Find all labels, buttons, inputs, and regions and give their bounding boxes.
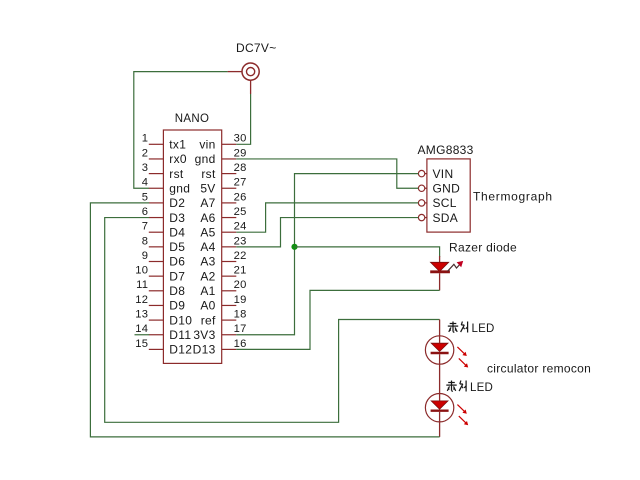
pin 29 (gnd) <box>195 147 247 166</box>
pin 3 (rst) <box>142 162 184 181</box>
svg-text:A6: A6 <box>200 211 215 225</box>
pin VIN of AMG8833 <box>418 167 453 181</box>
wire D3 pin6 to LED anodes <box>105 218 440 423</box>
LED D3 emission arrows <box>457 405 468 426</box>
svg-text:25: 25 <box>234 206 247 218</box>
svg-text:NANO: NANO <box>175 113 209 125</box>
LED D3 赤外LED <box>425 394 453 422</box>
label 赤外LED (upper) <box>448 322 495 336</box>
wire A4 pin23 to AMG8833 SDA <box>236 218 418 247</box>
pin 8 (D5) <box>142 235 185 254</box>
svg-text:gnd: gnd <box>169 181 190 195</box>
svg-text:2: 2 <box>142 147 149 159</box>
pin 14 (D11) <box>135 323 191 342</box>
pin 11 (D8) <box>136 279 185 298</box>
junction node laser anode on 3V3 wire <box>291 244 297 250</box>
svg-text:tx1: tx1 <box>169 138 186 152</box>
pin 17 (3V3) <box>193 323 246 342</box>
svg-text:ref: ref <box>201 313 216 327</box>
connector X1 DC7V~ <box>228 63 260 94</box>
wire A5 pin24 to AMG8833 SCL <box>236 203 418 232</box>
lead LED D2 cathode to LED D3 anode <box>439 364 441 394</box>
label circulator remocon <box>487 362 591 376</box>
svg-text:D12: D12 <box>169 343 192 357</box>
svg-text:6: 6 <box>142 206 149 218</box>
svg-text:D5: D5 <box>169 240 185 254</box>
pin 19 (A0) <box>200 294 246 313</box>
svg-text:D6: D6 <box>169 255 185 269</box>
svg-text:15: 15 <box>135 338 148 350</box>
laser emission arrow <box>448 261 464 271</box>
pin 23 (A4) <box>200 235 246 254</box>
svg-text:gnd: gnd <box>195 152 216 166</box>
svg-text:SDA: SDA <box>433 211 459 225</box>
pin 27 (5V) <box>200 177 246 196</box>
svg-text:17: 17 <box>234 323 247 335</box>
svg-text:LED: LED <box>470 382 493 394</box>
IC U1 NANO body <box>163 130 221 363</box>
wire DC7V to vin pin 30 <box>236 94 250 144</box>
laser diode D1 anode lead <box>439 256 441 263</box>
svg-text:22: 22 <box>234 250 247 262</box>
svg-text:rx0: rx0 <box>169 152 187 166</box>
lead LED D3 cathode down <box>439 422 441 437</box>
pin 24 (A5) <box>200 221 246 240</box>
pin 4 (gnd) <box>142 177 190 196</box>
svg-text:9: 9 <box>142 250 149 262</box>
svg-text:GND: GND <box>433 181 461 195</box>
pin 20 (A1) <box>200 279 246 298</box>
pin 7 (D4) <box>142 221 185 240</box>
svg-text:28: 28 <box>234 162 247 174</box>
pin 5 (D2) <box>142 191 185 210</box>
label Razer diode <box>449 241 517 255</box>
label Thermograph <box>473 190 553 204</box>
svg-text:D9: D9 <box>169 299 185 313</box>
svg-text:A3: A3 <box>200 255 215 269</box>
svg-text:D7: D7 <box>169 269 185 283</box>
pin 13 (D10) <box>135 309 192 328</box>
svg-text:D2: D2 <box>169 196 185 210</box>
label 赤外LED (lower) <box>446 381 493 395</box>
svg-text:D13: D13 <box>193 343 216 357</box>
svg-text:5: 5 <box>142 191 149 203</box>
svg-text:10: 10 <box>135 265 148 277</box>
svg-text:A1: A1 <box>200 284 215 298</box>
pin 1 (tx1) <box>142 133 186 152</box>
svg-text:A4: A4 <box>200 240 215 254</box>
svg-text:A2: A2 <box>200 269 215 283</box>
svg-text:1: 1 <box>142 133 149 145</box>
pin GND of AMG8833 <box>418 181 460 195</box>
svg-text:A5: A5 <box>200 225 215 239</box>
pin 6 (D3) <box>142 206 185 225</box>
pin 22 (A3) <box>200 250 246 269</box>
label AMG8833 <box>418 143 474 157</box>
svg-text:26: 26 <box>234 191 247 203</box>
wire laser cathode to D13 pin16 <box>236 290 439 349</box>
label NANO <box>175 113 209 125</box>
svg-text:D3: D3 <box>169 211 185 225</box>
wire LED D3 cathode to D2 pin5 <box>90 203 439 437</box>
svg-text:27: 27 <box>234 177 247 189</box>
pin 16 (D13) <box>193 338 247 357</box>
svg-text:DC7V~: DC7V~ <box>236 41 277 55</box>
LED chain anode lead <box>439 320 441 336</box>
svg-text:8: 8 <box>142 235 149 247</box>
svg-text:AMG8833: AMG8833 <box>418 143 474 157</box>
svg-text:24: 24 <box>234 221 247 233</box>
pin 12 (D9) <box>135 294 185 313</box>
svg-text:14: 14 <box>135 323 148 335</box>
svg-text:Razer diode: Razer diode <box>449 241 517 255</box>
svg-text:vin: vin <box>199 138 215 152</box>
svg-text:D10: D10 <box>169 313 192 327</box>
wire gnd pin29 to AMG8833 GND <box>236 159 418 188</box>
svg-text:29: 29 <box>234 147 247 159</box>
svg-text:16: 16 <box>234 338 247 350</box>
pin 21 (A2) <box>200 265 246 284</box>
svg-text:30: 30 <box>234 133 247 145</box>
svg-text:19: 19 <box>234 294 247 306</box>
pin 10 (D7) <box>135 265 185 284</box>
svg-text:21: 21 <box>234 265 247 277</box>
pin 25 (A6) <box>200 206 246 225</box>
pin 26 (A7) <box>200 191 246 210</box>
IC U2 AMG8833 body <box>427 159 470 232</box>
svg-text:23: 23 <box>234 235 247 247</box>
LED D2 赤外LED <box>425 336 453 364</box>
pin SDA of AMG8833 <box>418 211 458 225</box>
pin 15 (D12) <box>135 338 192 357</box>
svg-text:13: 13 <box>135 309 148 321</box>
pin 2 (rx0) <box>142 147 187 166</box>
svg-text:7: 7 <box>142 221 149 233</box>
svg-text:D4: D4 <box>169 225 185 239</box>
svg-text:rst: rst <box>169 167 184 181</box>
wire junction to laser diode anode <box>295 247 440 257</box>
LED D2 emission arrows <box>457 347 468 368</box>
svg-text:SCL: SCL <box>433 196 457 210</box>
svg-text:Thermograph: Thermograph <box>473 190 553 204</box>
svg-text:3V3: 3V3 <box>193 328 215 342</box>
svg-text:20: 20 <box>234 279 247 291</box>
svg-text:3: 3 <box>142 162 149 174</box>
svg-text:circulator remocon: circulator remocon <box>487 362 591 376</box>
svg-text:rst: rst <box>201 167 216 181</box>
svg-text:D8: D8 <box>169 284 185 298</box>
svg-text:5V: 5V <box>200 181 215 195</box>
svg-text:VIN: VIN <box>433 167 454 181</box>
svg-text:18: 18 <box>234 309 247 321</box>
svg-text:4: 4 <box>142 177 149 189</box>
pin 30 (vin) <box>199 133 246 152</box>
wire 3V3 pin17 to AMG8833 VIN <box>236 174 418 335</box>
svg-text:A0: A0 <box>200 299 215 313</box>
pin 18 (ref) <box>201 309 247 328</box>
wire DC7V to gnd pin 4 <box>134 72 228 189</box>
svg-text:12: 12 <box>135 294 148 306</box>
label DC7V~ <box>236 41 277 55</box>
svg-text:LED: LED <box>472 323 495 335</box>
svg-text:D11: D11 <box>169 328 191 342</box>
laser diode D1 (Razer diode) <box>430 262 450 290</box>
pin 9 (D6) <box>142 250 185 269</box>
svg-text:A7: A7 <box>200 196 215 210</box>
pin SCL of AMG8833 <box>418 196 456 210</box>
pin 28 (rst) <box>201 162 246 181</box>
svg-text:11: 11 <box>136 279 148 291</box>
wire stub D11 pin14 <box>135 334 150 336</box>
